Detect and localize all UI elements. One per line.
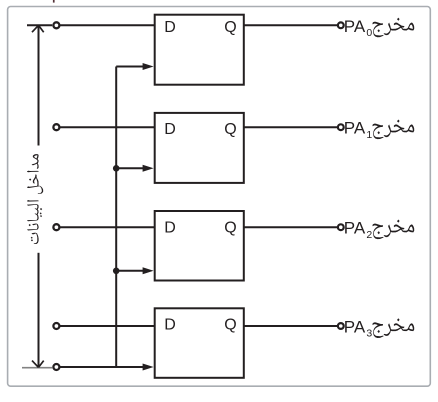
svg-text:PA: PA (344, 17, 366, 36)
svg-text:Q: Q (224, 317, 236, 334)
svg-text:D: D (164, 121, 176, 138)
svg-text:D: D (164, 19, 176, 36)
svg-text:PA: PA (344, 318, 366, 337)
svg-text:Q: Q (224, 121, 236, 138)
svg-text:Q: Q (224, 19, 236, 36)
svg-text:1: 1 (366, 129, 372, 141)
svg-text:0: 0 (366, 27, 372, 39)
svg-text:Q: Q (224, 220, 236, 237)
svg-text:2: 2 (366, 229, 372, 241)
svg-text:D: D (164, 317, 176, 334)
svg-text:PA: PA (344, 119, 366, 138)
svg-text:D: D (164, 220, 176, 237)
svg-text:3: 3 (366, 328, 372, 340)
svg-text:PA: PA (344, 219, 366, 238)
